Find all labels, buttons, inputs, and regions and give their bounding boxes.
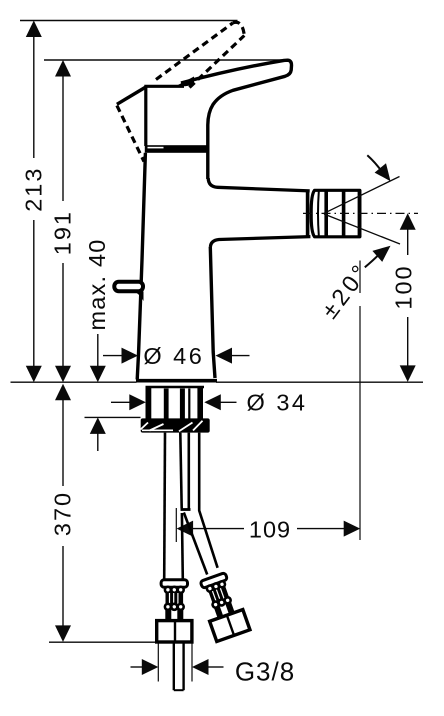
up arrow 213 (26, 21, 42, 38)
knob fillet (134, 292, 144, 302)
spout bottom edge (210, 237, 310, 247)
aerator right edge (358, 190, 362, 237)
svg-text:100: 100 (391, 264, 417, 309)
spout top edge (208, 178, 310, 191)
right hose angled inner edge (184, 513, 207, 575)
pop-up rod knob (114, 282, 143, 291)
pipe bottom cap (174, 689, 184, 691)
upper curved arrow tail (367, 155, 382, 172)
109 dimension line (191, 528, 244, 530)
svg-text:G3/8: G3/8 (235, 657, 295, 687)
right hose outer edge and bend (199, 433, 217, 568)
dia46 right arrow (216, 348, 233, 364)
up arrow 191 (55, 60, 71, 77)
svg-text:370: 370 (49, 491, 75, 536)
shank top line (146, 386, 205, 389)
left hose fitting (157, 580, 192, 642)
aerator divider 1 (324, 190, 328, 237)
100 dimension line (407, 228, 409, 255)
191 dimension line (62, 75, 64, 202)
handle head block left edge (144, 87, 147, 147)
dia34 right arrow (204, 394, 221, 410)
max 40 dimension line (97, 334, 99, 368)
shank inner line (188, 389, 190, 420)
mounting plane line (11, 381, 137, 383)
raised lever top edge (156, 23, 233, 80)
191 extension line (44, 59, 286, 61)
G3/8 dimension tails (131, 666, 143, 668)
left hose right edge upper (180, 433, 181, 509)
aerator divider 2 (342, 190, 346, 237)
shank inner tube 2 (180, 389, 185, 420)
lever arm with neck curve (181, 60, 292, 179)
aerator cap inner line (317, 192, 320, 236)
dia 46 dimension tails (103, 355, 124, 357)
109 left arrow (177, 521, 194, 537)
max depth line (85, 416, 141, 418)
dia34 left arrow (129, 394, 146, 410)
shank right wall (197, 388, 203, 419)
dia46 left arrow (122, 348, 139, 364)
lower curved arrow tail (365, 253, 381, 268)
spray upper curved arrowhead (375, 163, 391, 181)
svg-text:191: 191 (50, 210, 76, 255)
G3/8 left-pointing arrow (192, 659, 209, 675)
lever pivot wedge (177, 77, 195, 87)
hose elbow connector (181, 508, 191, 511)
spray angle upper line (324, 177, 400, 214)
body bottom edge (136, 379, 217, 383)
down arrow 191 (55, 366, 71, 383)
raised lever bottom edge (190, 36, 245, 88)
G3/8 right-pointing arrow (142, 659, 159, 675)
213 dimension line (33, 35, 35, 158)
pipe right edge (182, 642, 184, 690)
right hose fitting (196, 571, 250, 641)
spout mouth (306, 191, 310, 237)
spray angle lower line (324, 214, 400, 244)
down arrow 213 (26, 366, 42, 383)
left hose right edge lower (181, 513, 185, 580)
pipe left edge (173, 642, 175, 690)
109 right arrow (344, 521, 361, 537)
100 down arrow (400, 365, 416, 382)
svg-text:213: 213 (21, 167, 47, 212)
svg-text:Ø 46: Ø 46 (143, 343, 204, 369)
100 up arrow (400, 213, 416, 230)
right hose left edge (188, 433, 191, 509)
head top edge (144, 85, 184, 88)
body right edge below spout (210, 247, 215, 378)
spray lower curved arrowhead (372, 246, 390, 262)
hose end reference line (49, 641, 156, 643)
washer hatch slits (141, 421, 203, 432)
aerator body (311, 190, 360, 237)
body left edge (137, 153, 145, 380)
up arrow max40 lower (90, 417, 106, 434)
raised handle skirt edge (117, 106, 144, 162)
left hose left edge (163, 433, 166, 580)
213 extension line (top) (20, 20, 238, 22)
109 extension lines (175, 508, 177, 542)
handle knee (117, 87, 146, 104)
370 dimension line (62, 399, 64, 487)
down arrow max40 (90, 366, 106, 383)
svg-text:109: 109 (249, 517, 291, 543)
head bottom edge and trim band (145, 145, 210, 153)
raised lever tip cap (233, 22, 244, 35)
down arrow 370 (55, 625, 71, 642)
G3/8 extension lines (157, 644, 159, 682)
shank inner tube 1 (164, 389, 169, 420)
spray axis center line (303, 212, 418, 214)
dia 34 dimension tails (111, 401, 131, 403)
svg-text:Ø 34: Ø 34 (247, 390, 308, 416)
shank left wall (145, 388, 151, 419)
up arrow 370 (55, 384, 71, 401)
svg-text:max. 40: max. 40 (84, 239, 110, 331)
